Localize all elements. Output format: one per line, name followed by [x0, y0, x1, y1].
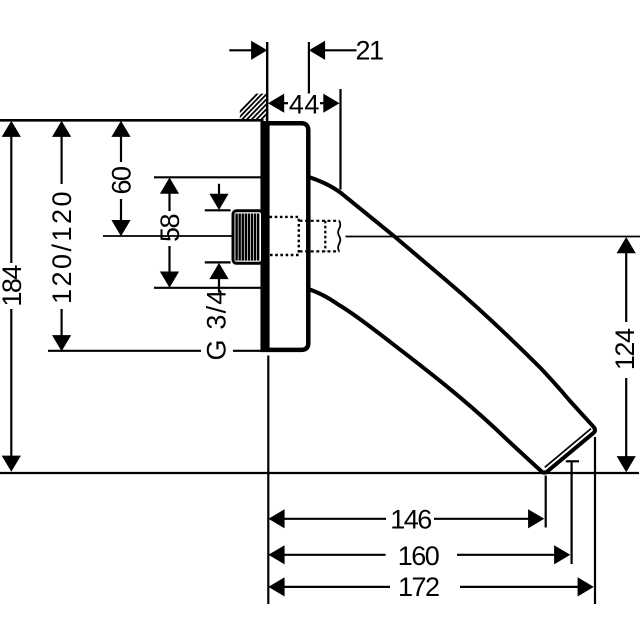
dim 160 — [268, 541, 570, 571]
svg-text:160: 160 — [398, 541, 439, 571]
svg-text:124: 124 — [610, 328, 640, 370]
spout outlet inner rim line — [545, 429, 591, 468]
dim 21 — [229, 35, 383, 93]
centerline right — [346, 236, 641, 238]
wall hatching — [231, 92, 293, 121]
left extension line for bottom dims — [267, 356, 269, 605]
svg-text:184: 184 — [0, 265, 27, 307]
dim 124 — [610, 237, 640, 472]
flange bottom extension line — [48, 350, 201, 352]
58 top extension line — [154, 176, 261, 178]
svg-text:146: 146 — [390, 504, 431, 534]
58 bottom extension line — [154, 287, 261, 289]
wall top line — [0, 119, 264, 122]
thread G3/4 leader arrows — [202, 184, 232, 361]
spout body — [306, 176, 595, 472]
146 extension line — [545, 476, 547, 528]
160 tick — [566, 460, 579, 462]
wall plate bar — [261, 121, 269, 348]
svg-text:120/120: 120/120 — [47, 189, 77, 304]
172 extension line — [594, 437, 596, 604]
dim 172 — [268, 572, 593, 602]
dim 44 — [268, 89, 341, 190]
threaded connector — [233, 211, 263, 263]
hidden connection dashed rect 1 — [270, 217, 299, 255]
wall face line — [266, 42, 268, 122]
centerline left — [103, 235, 233, 237]
svg-text:60: 60 — [107, 167, 137, 195]
svg-text:58: 58 — [155, 215, 185, 243]
svg-text:172: 172 — [398, 572, 439, 602]
base line — [0, 472, 639, 474]
connector thread lines — [237, 214, 259, 261]
svg-text:G 3/4: G 3/4 — [202, 288, 232, 360]
dim 60 — [107, 121, 137, 237]
escutcheon flange — [263, 123, 309, 350]
dim 146 — [268, 504, 544, 534]
svg-text:44: 44 — [289, 90, 320, 120]
dim 120/120 — [47, 121, 77, 352]
svg-text:21: 21 — [355, 35, 383, 65]
dim 58 — [155, 178, 185, 288]
dim 184 — [0, 121, 27, 472]
hidden thread dashed lines (rect 2) — [300, 221, 341, 252]
160 extension line — [570, 461, 572, 565]
